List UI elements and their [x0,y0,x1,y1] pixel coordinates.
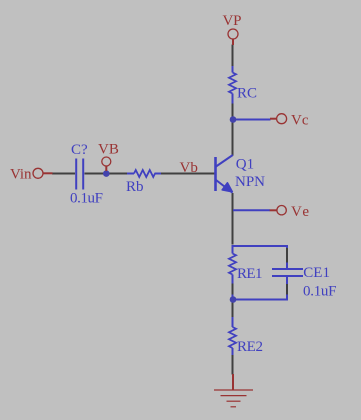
svg-text:Vin: Vin [10,166,32,182]
svg-text:Rb: Rb [126,179,144,195]
svg-text:VP: VP [223,13,242,29]
svg-text:C?: C? [71,142,88,158]
svg-text:0.1uF: 0.1uF [303,284,337,300]
svg-text:Vc: Vc [291,113,309,129]
svg-text:Q1: Q1 [236,156,254,172]
svg-text:NPN: NPN [235,174,265,190]
svg-text:VB: VB [98,142,119,158]
svg-text:CE1: CE1 [303,265,330,281]
svg-text:0.1uF: 0.1uF [70,191,103,207]
svg-text:RE1: RE1 [237,266,263,282]
svg-text:RC: RC [237,86,257,102]
svg-text:Ve: Ve [291,204,309,220]
svg-text:Vb: Vb [180,160,198,176]
svg-text:RE2: RE2 [237,339,263,355]
